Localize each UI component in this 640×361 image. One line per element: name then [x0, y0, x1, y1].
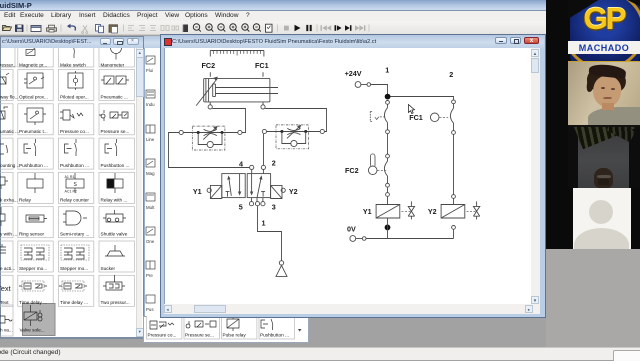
pause	[306, 25, 308, 31]
cylinder piston rod	[215, 88, 278, 94]
svg-text:Y1: Y1	[193, 187, 202, 196]
svg-text:Indu: Indu	[146, 102, 155, 107]
svg-text:Pressure se...: Pressure se...	[101, 129, 130, 134]
svg-text:2: 2	[449, 70, 453, 79]
svg-text:e acti...: e acti...	[0, 266, 15, 271]
svg-text:Pressure se...: Pressure se...	[185, 333, 214, 338]
valve port 3	[261, 202, 265, 206]
V1 through line	[183, 132, 238, 134]
V2 through line	[267, 131, 321, 133]
branch 2	[452, 100, 456, 104]
svg-text:Pneumatic ...: Pneumatic ...	[101, 95, 128, 100]
valve port 1	[255, 202, 259, 206]
make switch S1	[387, 104, 389, 107]
Y2 pilot box	[271, 185, 282, 198]
scissors grey	[82, 26, 88, 34]
cylinder port stubs	[210, 102, 263, 105]
svg-text:4: 4	[239, 160, 243, 169]
row7 symbols	[0, 244, 125, 260]
wire V1-left to port4	[169, 133, 250, 168]
svg-text:Relay counter: Relay counter	[60, 197, 89, 202]
air source connector	[279, 261, 283, 265]
V1 throttle arcs	[204, 129, 217, 135]
wire down to junction	[387, 85, 389, 95]
distance ruler	[210, 51, 264, 57]
svg-text:Pus: Pus	[146, 307, 154, 312]
Y1 top connector	[386, 193, 390, 197]
row9: col0 partial + selected valve sole cell	[0, 305, 42, 326]
svg-text:FC1: FC1	[409, 113, 423, 122]
wire	[387, 134, 389, 155]
play	[295, 25, 301, 31]
grey alignment icons	[128, 26, 179, 31]
right chamber internals	[251, 174, 253, 194]
undo	[70, 26, 76, 31]
svg-text:way flo...: way flo...	[0, 95, 19, 100]
svg-text:Relay with ...: Relay with ...	[101, 197, 128, 202]
book icon	[183, 25, 188, 33]
svg-text:Text: Text	[0, 300, 9, 305]
svg-text:Stepper mo...: Stepper mo...	[60, 266, 88, 271]
svg-text:S: S	[74, 182, 78, 188]
V1 check circle	[207, 141, 213, 147]
svg-text:Pressure co...: Pressure co...	[60, 129, 89, 134]
V1 left port	[179, 130, 183, 134]
svg-text:Pushbutton ...: Pushbutton ...	[60, 163, 89, 168]
svg-text:Piloted oper...: Piloted oper...	[60, 95, 89, 100]
svg-text:Two pressur...: Two pressur...	[101, 300, 130, 305]
svg-text:Semi-rotary ...: Semi-rotary ...	[60, 232, 89, 237]
wire V2-left to port2	[263, 134, 265, 166]
FC1 contact	[453, 104, 455, 109]
svg-text:AC1 P2: AC1 P2	[65, 190, 77, 194]
app title bar	[0, 0, 640, 11]
magnifiers	[193, 24, 260, 32]
svg-text:Pulse relay: Pulse relay	[223, 333, 247, 338]
svg-text:FC2: FC2	[202, 61, 216, 70]
wire down	[453, 134, 455, 194]
row1 partial: cell borders and bottom of symbols	[0, 39, 134, 67]
FC2 bottom connector	[386, 183, 390, 187]
grey zone below card	[546, 249, 640, 348]
window buttons	[495, 37, 507, 44]
svg-text:Pneumatic t...: Pneumatic t...	[19, 129, 48, 134]
V1 adjust arrow	[203, 127, 216, 139]
cylinder rod mount	[213, 84, 216, 97]
svg-text:Ring sensor: Ring sensor	[19, 232, 44, 237]
svg-text:ressur...: ressur...	[0, 63, 17, 68]
Y2 valve link	[467, 210, 476, 212]
FC2 top connector	[386, 154, 390, 158]
r1 c2 make switch	[73, 46, 74, 58]
svg-text:k exha...: k exha...	[0, 197, 18, 202]
cell frames rows 2-8	[0, 70, 134, 337]
step icons	[321, 25, 322, 31]
Y2 bottom connector	[452, 226, 456, 230]
svg-text:Pushbutton ...: Pushbutton ...	[19, 163, 48, 168]
svg-text:ounting ...: ounting ...	[0, 163, 21, 168]
paste	[109, 25, 118, 32]
FC2 contact	[387, 158, 389, 161]
rail to branch2	[391, 97, 454, 100]
cylinder A1 body	[204, 78, 270, 102]
svg-text:FC2: FC2	[345, 166, 359, 175]
svg-text:Y1: Y1	[363, 207, 372, 216]
circuit schematic	[164, 48, 530, 304]
valve port 5	[249, 202, 253, 206]
svg-text:Pushbutton ...: Pushbutton ...	[101, 163, 130, 168]
row2 symbols: way-flo / Optical prox / Piloted oper / Pneumatic	[0, 71, 129, 90]
svg-text:Flui: Flui	[146, 68, 153, 73]
cylinder piston	[206, 79, 209, 101]
GP MACHADO logo thumb	[568, 0, 640, 62]
scale markers	[210, 72, 263, 76]
row3 symbols	[0, 107, 128, 125]
wire cyl-left to FCV1 right	[212, 109, 245, 133]
cylinder port right	[261, 105, 265, 109]
svg-text:3: 3	[272, 203, 276, 212]
V1 junction dots	[197, 131, 200, 134]
junction dot	[385, 94, 391, 100]
svg-text:One: One	[146, 239, 155, 244]
svg-text:Valve sole...: Valve sole...	[20, 328, 45, 333]
open	[3, 26, 12, 31]
svg-text:Line: Line	[146, 137, 155, 142]
air source triangle	[276, 265, 287, 276]
V2 right port	[320, 129, 324, 133]
svg-text:Magnetic pr...: Magnetic pr...	[19, 63, 47, 68]
save	[16, 25, 24, 32]
printer	[47, 28, 57, 31]
make switch bottom connector	[386, 130, 390, 134]
V2 adjust arrow	[287, 126, 300, 138]
Y1 coil	[376, 205, 400, 219]
canvas	[164, 48, 531, 304]
svg-text:h va...: h va...	[0, 328, 13, 333]
svg-text:Mult: Mult	[146, 205, 155, 210]
svg-text:1: 1	[385, 66, 389, 75]
v scrollbar	[531, 48, 540, 304]
+24V terminal	[355, 82, 361, 88]
photo thumb	[568, 62, 640, 127]
dark webcam thumb	[568, 127, 640, 188]
V1 check bypass	[198, 133, 222, 145]
new window icon	[31, 26, 41, 32]
row8 symbols	[0, 275, 125, 293]
menu bar	[0, 11, 640, 21]
svg-text:0V: 0V	[347, 225, 356, 234]
r1 c1 magnetic prox	[26, 50, 35, 56]
FC1 bottom connector	[452, 131, 456, 135]
avatar card	[573, 188, 631, 249]
svg-text:Optical prox...: Optical prox...	[19, 95, 48, 100]
svg-text:2: 2	[272, 159, 276, 168]
left panel scrollbar	[136, 48, 143, 337]
row5 symbols: relay family	[0, 173, 123, 194]
toolbar	[0, 21, 640, 35]
rows 2..9	[0, 69, 136, 337]
row9 selected grey cell	[23, 304, 56, 336]
Y1 valve link	[402, 210, 411, 212]
svg-text:Manometer: Manometer	[101, 63, 125, 68]
valve 5/2 port 2	[261, 165, 265, 169]
desktop background under windows	[0, 35, 546, 347]
Y1 pilot box	[210, 185, 221, 198]
doc check	[266, 24, 273, 32]
0V terminal	[350, 236, 356, 242]
r1 c3 manometer	[111, 43, 122, 54]
valve 5/2 body	[222, 174, 245, 198]
Y2 coil	[441, 205, 465, 219]
h scrollbar	[164, 304, 540, 314]
row4 symbols: pushbuttons	[0, 139, 117, 156]
mouse cursor	[409, 105, 415, 114]
svg-text:5: 5	[239, 203, 243, 212]
stop grey	[284, 26, 289, 31]
cylinder stroke arrow	[196, 79, 217, 106]
svg-text:Stepper mo...: Stepper mo...	[19, 266, 47, 271]
svg-text:Make switch: Make switch	[60, 63, 86, 68]
0V rail	[366, 238, 454, 240]
svg-text:y with ...: y with ...	[0, 232, 17, 237]
Y1 bottom junction dot	[385, 225, 391, 231]
svg-text:Time delay ...: Time delay ...	[19, 300, 47, 305]
svg-text:Pre: Pre	[146, 273, 153, 278]
svg-text:A1 R1: A1 R1	[65, 175, 75, 179]
cylinder port left	[208, 105, 212, 109]
wire cyl-right to FCV2 right	[265, 109, 326, 132]
svg-text:Pushbutton ...: Pushbutton ...	[260, 333, 289, 338]
flow control valve V1 box	[192, 126, 225, 150]
V1 right port	[238, 130, 242, 134]
row6 symbols	[0, 207, 126, 226]
V2 junction dots	[280, 130, 283, 133]
svg-text:Time delay ...: Time delay ...	[60, 300, 88, 305]
valve 5/2 port 4	[250, 165, 254, 169]
library grid	[0, 48, 136, 337]
svg-text:Text: Text	[0, 284, 12, 293]
Y2 top connector	[452, 195, 456, 199]
branch1 top connector	[386, 101, 390, 105]
svg-text:1: 1	[262, 219, 266, 228]
svg-text:Y2: Y2	[428, 207, 437, 216]
svg-text:+24V: +24V	[345, 69, 362, 78]
svg-text:Y2: Y2	[289, 187, 298, 196]
V2 check bypass	[282, 132, 306, 144]
bottom stubs	[252, 198, 263, 202]
V2 check circle	[291, 140, 297, 146]
svg-text:Shuttle valve: Shuttle valve	[101, 232, 128, 237]
V2 throttle arcs	[287, 128, 300, 134]
svg-text:Relay: Relay	[19, 197, 32, 202]
copy	[96, 25, 101, 32]
svg-text:Mag: Mag	[146, 171, 155, 176]
svg-text:FC1: FC1	[255, 61, 269, 70]
svg-text:umatic ...: umatic ...	[0, 129, 19, 134]
svg-text:Sucker: Sucker	[101, 266, 116, 271]
svg-text:Pressure co...: Pressure co...	[148, 333, 177, 338]
flow control valve V2 box	[276, 125, 309, 149]
wire port1 to air source	[258, 206, 282, 261]
left chamber internals	[229, 178, 232, 196]
top stubs	[252, 170, 264, 174]
V2 left port	[262, 129, 266, 133]
